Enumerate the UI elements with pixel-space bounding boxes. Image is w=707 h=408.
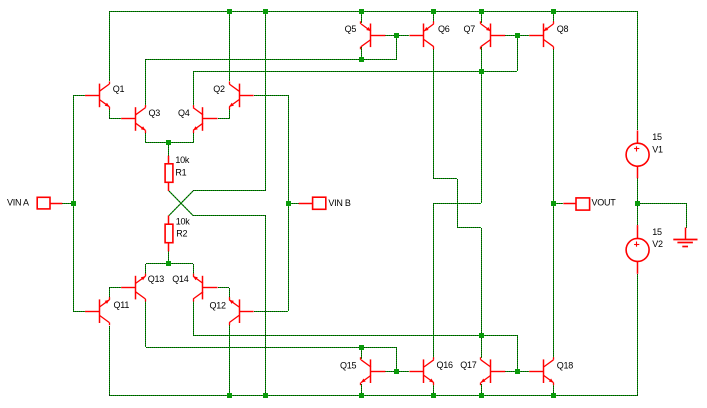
wire Q16 emitter stub (433, 384, 435, 395)
wire Q6 emitter stub (433, 11, 435, 23)
wire Q13 base link (109, 287, 121, 289)
wire Q2 collector riser (229, 11, 231, 81)
wire jog B horizontal y203 (433, 203, 481, 205)
wire ground drop (686, 203, 688, 228)
wire Q3 collector riser (145, 59, 147, 105)
wire column to Q17 collector (481, 228, 483, 358)
wire top rail V+ (109, 11, 638, 13)
node Q12 collector on V- rail (227, 393, 232, 398)
wire VOUT port link (553, 203, 563, 205)
svg-text:Q13: Q13 (148, 274, 165, 284)
node Q7 collector on net B (479, 69, 484, 74)
wire Q15 emitter stub (361, 384, 363, 395)
wire Q4 base link (218, 118, 229, 120)
transistor Q18 (529, 357, 553, 385)
wire R2 lower lead link (168, 251, 170, 264)
wire Q3 base link (109, 118, 121, 120)
svg-text:Q1: Q1 (113, 84, 125, 94)
port VIN A (37, 197, 62, 209)
wire cross lower horizontal y215 (193, 215, 266, 217)
node Q5 collector on net A (359, 57, 364, 62)
transistor Q8 (529, 21, 553, 49)
wire Q12 emitter rise (229, 288, 231, 300)
svg-text:VIN B: VIN B (328, 198, 351, 208)
transistor Q2 (229, 81, 253, 109)
transistor Q17 (481, 357, 506, 385)
svg-text:Q15: Q15 (340, 360, 357, 370)
svg-text:Q12: Q12 (210, 300, 227, 310)
wire Q5 emitter stub (361, 11, 363, 23)
wire Q8 collector column (553, 49, 555, 203)
node V1 minus (635, 201, 640, 206)
wire Q5 collector stub (361, 47, 363, 59)
wire Q14 base link (218, 287, 229, 289)
transistor Q5 (361, 21, 386, 49)
svg-text:10k: 10k (176, 216, 191, 226)
wire Q11 base link (73, 311, 85, 313)
node Q15 collector on net A2 (359, 345, 364, 350)
port VIN B (299, 197, 326, 209)
wire net A horizontal y59 (146, 59, 397, 61)
wire Q3 emitter drop (145, 131, 147, 143)
transistor Q13 (121, 274, 145, 302)
transistor Q7 (481, 21, 506, 49)
node Q7 Q8 bases (515, 33, 520, 38)
wire net A2 horizontal y347 (146, 347, 397, 349)
node Q5 Q6 bases (394, 33, 399, 38)
svg-text:V1: V1 (652, 145, 663, 155)
wire VIN A riser x73 (73, 95, 75, 311)
svg-text:10k: 10k (175, 155, 190, 165)
transistor Q3 (121, 105, 145, 133)
wire VIN B riser x288 (288, 95, 290, 311)
node Q16 emitter on V- rail (431, 393, 436, 398)
wire Q11 emitter rise (109, 288, 111, 300)
svg-text:Q2: Q2 (213, 84, 225, 94)
wire Q6 collector drop (433, 47, 435, 179)
wire Q4 emitter drop (193, 131, 195, 143)
wire R1 upper lead link (168, 143, 170, 156)
transistor Q1 (85, 81, 110, 109)
node Q17 Q18 bases (515, 369, 520, 374)
node Q7 emitter on V+ rail (479, 9, 484, 14)
svg-text:Q6: Q6 (438, 24, 450, 34)
transistor Q11 (85, 297, 110, 325)
wire riser mirror2 bases right (517, 335, 519, 371)
wire net B horizontal y71 (193, 71, 517, 73)
wire Q18 emitter stub (553, 384, 555, 395)
svg-text:Q3: Q3 (149, 108, 161, 118)
wire Q11 collector drop (109, 326, 111, 395)
wire cross diagonal R1-to-lower (169, 191, 193, 216)
resistor R2 (165, 216, 173, 252)
transistor Q15 (361, 357, 386, 385)
wire Q17 emitter stub (481, 384, 483, 395)
wire Q2 base link (254, 95, 288, 97)
node Q18 emitter on V- rail (551, 393, 556, 398)
svg-text:15: 15 (652, 132, 662, 142)
wire latch riser lower x265 (265, 216, 267, 395)
transistor Q4 (193, 105, 217, 133)
voltage source V1 (626, 131, 649, 179)
wire Q1 collector riser (109, 11, 111, 81)
node Q2 collector on V+ rail (227, 9, 232, 14)
svg-text:Q7: Q7 (464, 24, 476, 34)
node VIN A (71, 201, 76, 206)
node R1 top (166, 140, 171, 145)
wire Q4 collector riser (193, 71, 195, 105)
node Q6 emitter on V+ rail (431, 9, 436, 14)
wire Q12 collector drop (229, 325, 231, 395)
wire Q7 collector column (481, 47, 483, 203)
wire Q13 emitter rise (145, 264, 147, 276)
wire jog A horizontal y227 (457, 227, 481, 229)
wire latch riser upper x265 (265, 11, 267, 191)
wire bottom rail V- (109, 395, 638, 397)
svg-text:15: 15 (652, 227, 662, 237)
wire VIN A port link (62, 203, 73, 205)
voltage source V2 (626, 225, 649, 274)
svg-text:Q4: Q4 (178, 108, 190, 118)
wire riser mirror bases left (396, 35, 398, 59)
node R2 bottom (166, 261, 171, 266)
wire riser mirror2 bases left (396, 347, 398, 371)
node Q17 collector on net B2 (479, 333, 484, 338)
wire Q12 base link (254, 311, 288, 313)
wire output to ground run (638, 203, 686, 205)
node Q15 Q16 bases (394, 369, 399, 374)
wire rail to V1 (637, 11, 639, 130)
wire Q7 emitter stub (481, 11, 483, 23)
transistor Q6 (409, 21, 433, 49)
node latch riser on V+ rail (263, 9, 268, 14)
wire Q2 emitter drop (229, 107, 231, 119)
svg-text:R2: R2 (176, 229, 187, 239)
transistor Q14 (193, 274, 217, 302)
node VIN B (286, 201, 291, 206)
svg-text:R1: R1 (175, 167, 186, 177)
svg-text:Q5: Q5 (345, 24, 357, 34)
port VOUT (563, 198, 589, 210)
wire VIN B port link (288, 203, 299, 205)
svg-text:Q8: Q8 (557, 24, 569, 34)
node latch riser on V- rail (263, 393, 268, 398)
wire R2 bottom horizontal (146, 263, 193, 265)
svg-text:Q16: Q16 (437, 360, 454, 370)
wire cross diagonal upper-to-R2 (169, 191, 193, 216)
wire jog A horizontal y179 (433, 178, 457, 180)
svg-text:V2: V2 (652, 239, 663, 249)
wire Q15 collector stub (361, 347, 363, 359)
node Q8 emitter on V+ rail (551, 9, 556, 14)
wire riser mirror bases right (517, 35, 519, 71)
svg-text:Q17: Q17 (460, 360, 477, 370)
wire Q1 base link (73, 95, 85, 97)
wire Q15-Q16 base link (385, 371, 409, 373)
wire cross upper horizontal y191 (193, 190, 266, 192)
wire Q1 emitter drop (109, 107, 111, 119)
node Q15 emitter on V- rail (359, 393, 364, 398)
wire V1 to V2 link (637, 178, 639, 225)
svg-text:VOUT: VOUT (592, 198, 617, 208)
wire column to Q16 collector (433, 203, 435, 358)
svg-text:Q11: Q11 (114, 300, 130, 310)
svg-text:Q14: Q14 (172, 274, 189, 284)
resistor R1 (165, 156, 173, 191)
node Q17 emitter on V- rail (479, 393, 484, 398)
node Q5 emitter on V+ rail (359, 9, 364, 14)
svg-text:VIN A: VIN A (7, 197, 29, 207)
svg-text:Q18: Q18 (557, 360, 574, 370)
wire net B2 horizontal y335 (193, 335, 517, 337)
wire R1 top horizontal (146, 142, 193, 144)
wire jog A vertical x457 (457, 179, 459, 228)
ground (673, 228, 697, 247)
transistor Q16 (409, 357, 433, 385)
transistor Q12 (229, 297, 253, 325)
wire Q14 emitter rise (193, 264, 195, 276)
wire V2 to bottom rail (637, 274, 639, 395)
node VOUT (551, 201, 556, 206)
wire Q5-Q6 base link (385, 35, 409, 37)
wire Q13 collector riser (145, 301, 147, 347)
wire Q8 emitter stub (553, 11, 555, 23)
wire Q17-Q18 base link (505, 371, 529, 373)
wire Q7-Q8 base link (505, 35, 529, 37)
wire Q18 collector column (553, 203, 555, 358)
wire Q14 collector riser (193, 301, 195, 335)
